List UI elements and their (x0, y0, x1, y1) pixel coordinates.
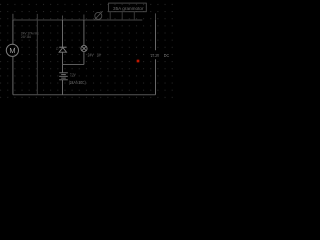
box pin 1 (109, 12, 111, 20)
svg-text:D: D (56, 47, 59, 51)
wire right branch lower (155, 59, 157, 94)
lamp value label (88, 53, 101, 58)
svg-text:(24Ah 30C): (24Ah 30C) (69, 80, 86, 85)
wire motor branch upper (12, 20, 14, 44)
wire lamp junction horizontal (63, 64, 84, 66)
wire mid vertical branch (36, 20, 38, 95)
wire lamp branch upper (83, 20, 85, 45)
motor M1 (6, 44, 18, 56)
svg-text:35A granmotor: 35A granmotor (113, 6, 144, 11)
battery B1 (59, 73, 68, 80)
wire mid branch top stub (36, 14, 38, 20)
svg-text:M: M (9, 46, 15, 55)
wire right branch top stub (155, 13, 157, 20)
svg-text:24V 15A: 24V 15A (21, 34, 31, 39)
wire diode branch lower (62, 52, 64, 72)
node label 27.2V DC (151, 53, 170, 59)
box pin 2 (121, 12, 123, 20)
lamp X1 (81, 45, 87, 51)
svg-text:27.2V: 27.2V (151, 53, 160, 59)
wire lamp branch top stub (83, 15, 85, 21)
wire left branch top stub (12, 14, 14, 20)
switch S1 (crossed circle on top bus) (94, 11, 103, 20)
wire motor branch lower (12, 56, 14, 94)
svg-text:1W: 1W (97, 53, 101, 58)
diode D1 (59, 47, 67, 52)
svg-text:DC: DC (164, 53, 170, 59)
box pin 3 (133, 12, 135, 20)
wire right branch upper (155, 20, 157, 50)
wire diode branch top stub (62, 16, 64, 21)
wire lamp branch lower (83, 52, 85, 65)
controller box U1 (109, 3, 147, 12)
wire diode branch upper (62, 20, 64, 47)
battery value label (69, 72, 86, 85)
red probe dot (136, 59, 141, 64)
wire top bus (13, 19, 142, 21)
svg-text:24V: 24V (88, 53, 94, 58)
wire battery branch lower (62, 80, 64, 95)
motor value label (21, 30, 39, 39)
svg-text:7.2V: 7.2V (70, 72, 76, 77)
wire bottom bus (13, 94, 156, 96)
